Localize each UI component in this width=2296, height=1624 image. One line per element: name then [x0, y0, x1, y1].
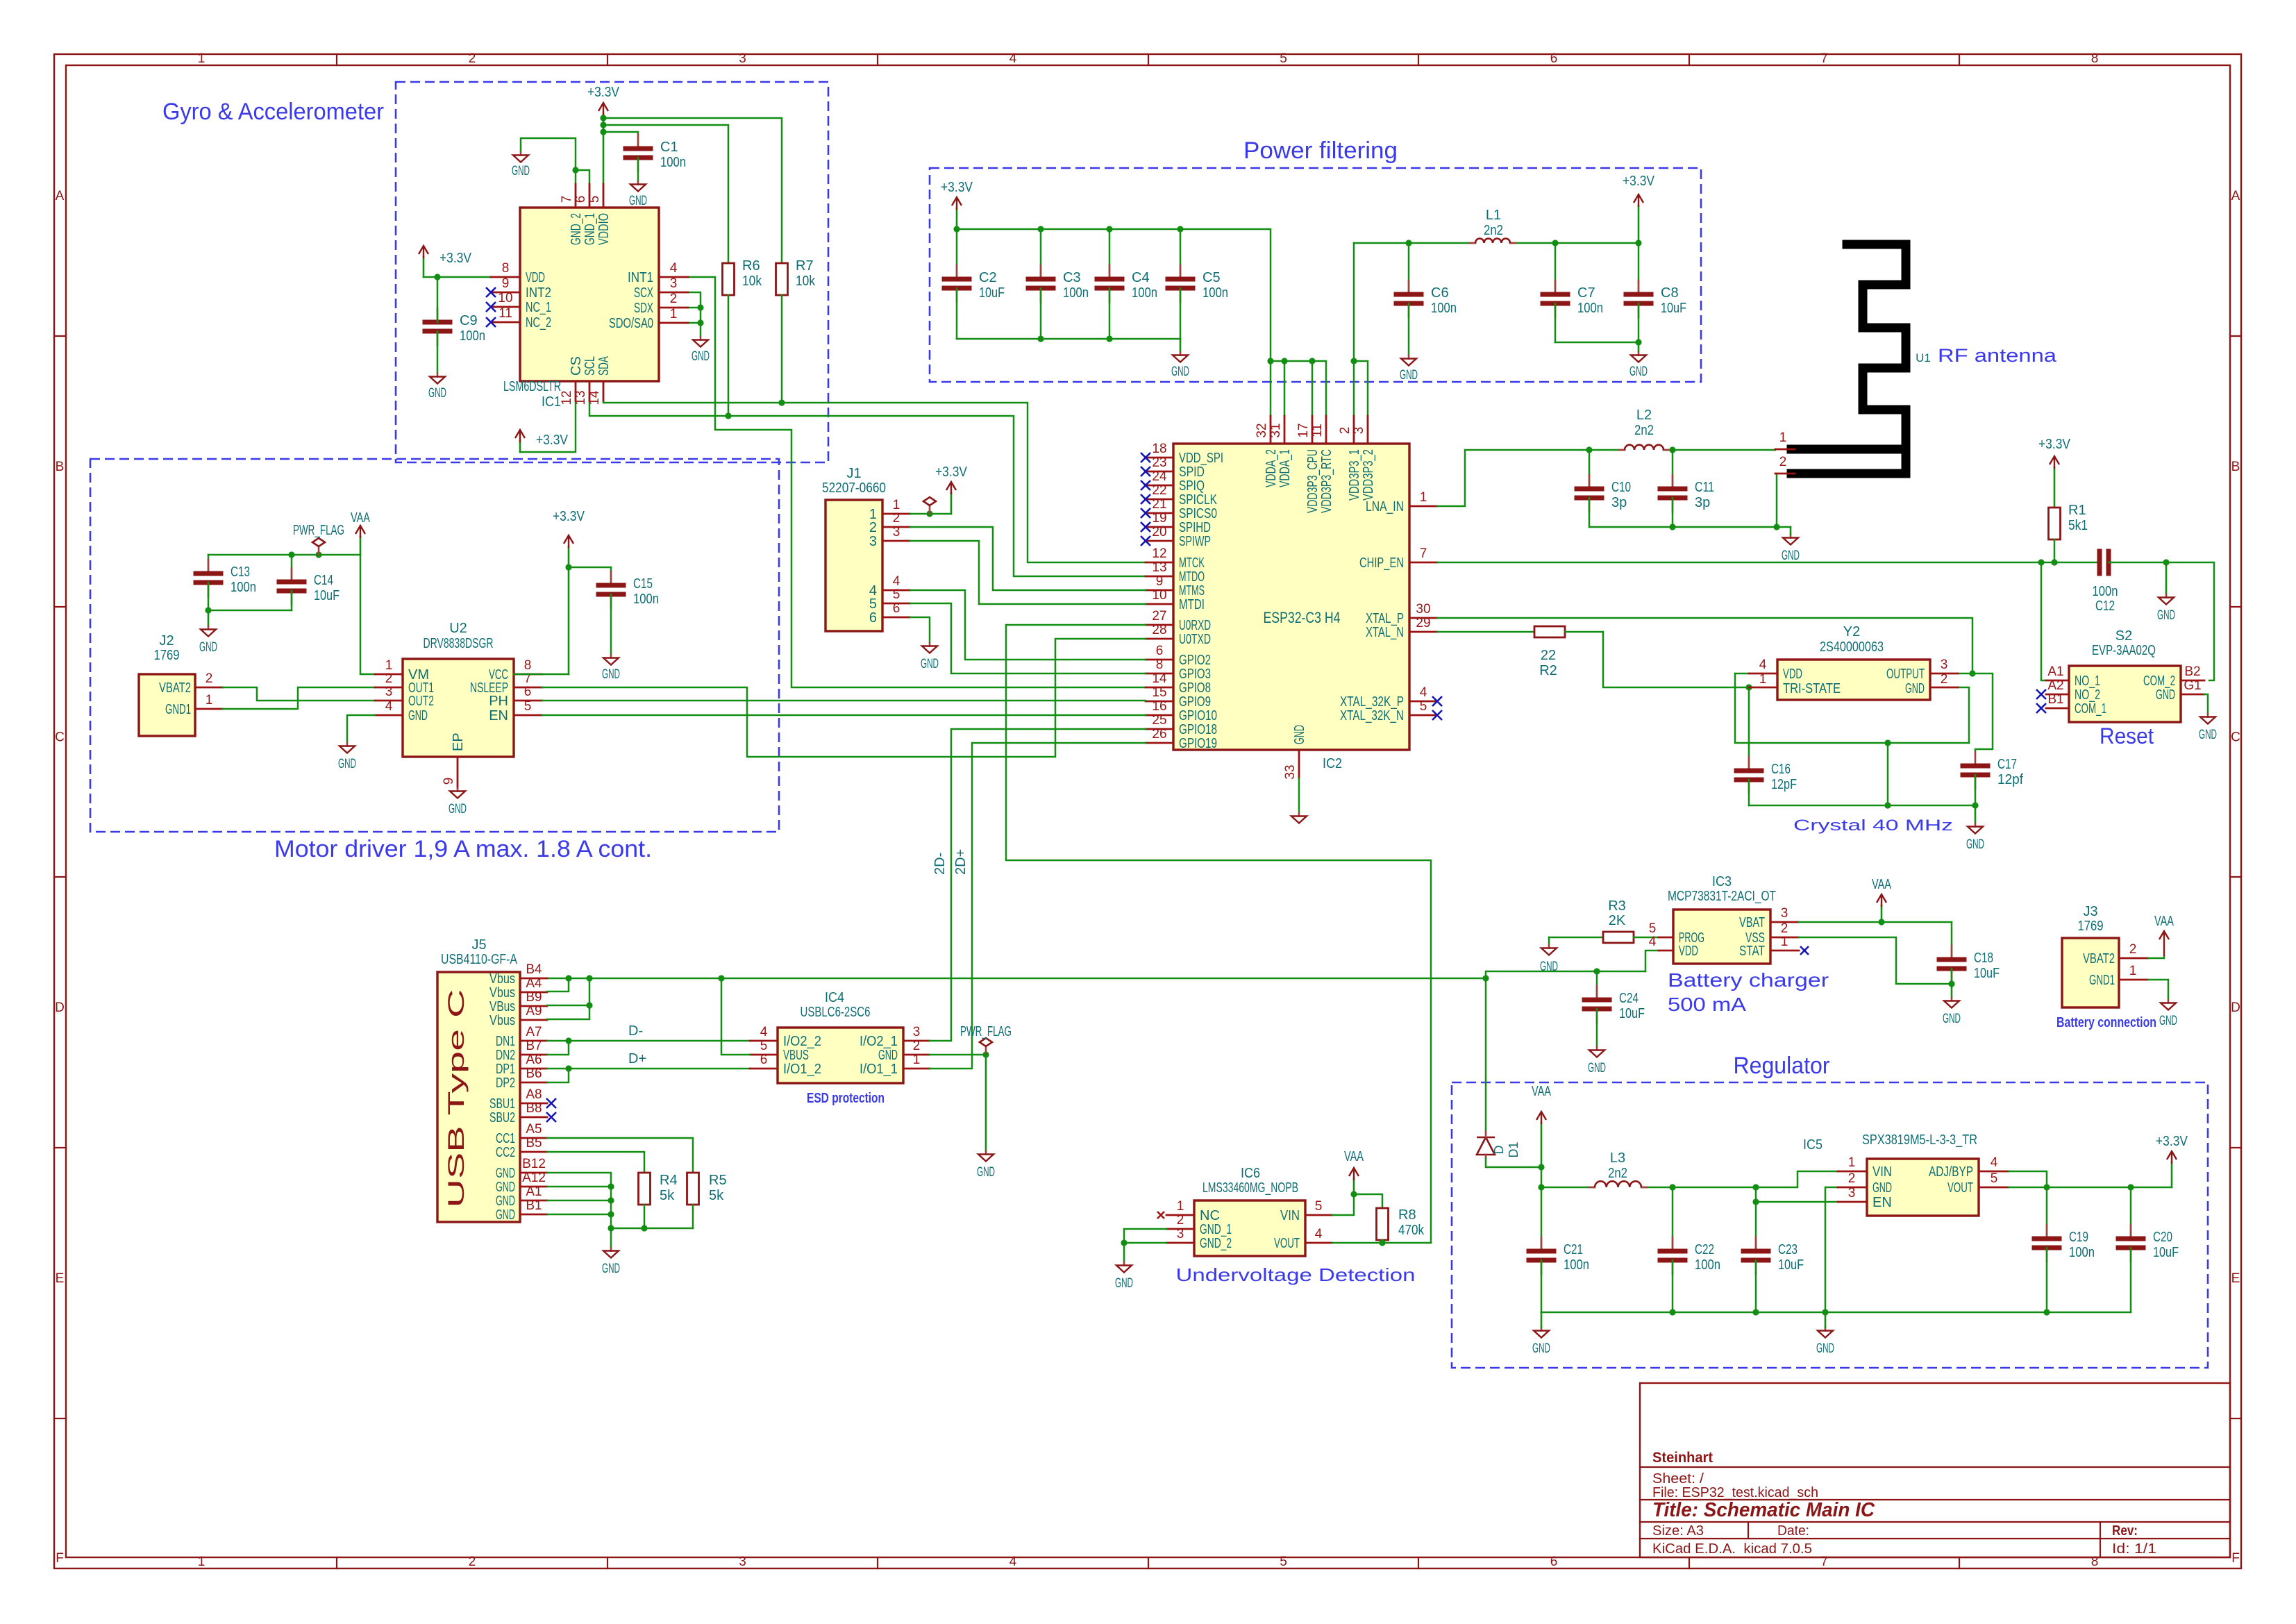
svg-text:1: 1 [1781, 935, 1788, 949]
svg-text:Battery charger: Battery charger [1668, 969, 1829, 991]
svg-text:10uF: 10uF [2153, 1245, 2179, 1260]
svg-text:J2: J2 [159, 633, 174, 648]
svg-text:VDD3P3_CPU: VDD3P3_CPU [1305, 449, 1321, 513]
svg-text:3: 3 [913, 1025, 921, 1039]
svg-text:U0TXD: U0TXD [1179, 632, 1211, 647]
svg-text:C2: C2 [979, 270, 997, 285]
svg-text:3p: 3p [1611, 495, 1627, 510]
svg-text:1: 1 [1779, 430, 1787, 445]
svg-text:14: 14 [587, 390, 602, 405]
svg-text:A2: A2 [2047, 678, 2063, 693]
svg-text:S2: S2 [2115, 628, 2132, 644]
svg-text:Steinhart: Steinhart [1652, 1450, 1713, 1466]
svg-text:GND: GND [1292, 725, 1307, 744]
svg-text:GND: GND [1629, 365, 1648, 379]
svg-text:C4: C4 [1132, 270, 1150, 285]
svg-text:C13: C13 [231, 564, 250, 580]
svg-text:Gyro & Accelerometer: Gyro & Accelerometer [162, 99, 384, 125]
svg-text:B6: B6 [526, 1066, 542, 1081]
svg-text:100n: 100n [1132, 285, 1157, 301]
svg-text:6: 6 [1550, 51, 1558, 66]
svg-text:17: 17 [1296, 423, 1311, 437]
svg-text:3: 3 [739, 1555, 746, 1569]
svg-text:STAT: STAT [1739, 944, 1765, 959]
svg-text:4: 4 [760, 1025, 768, 1039]
svg-text:100n: 100n [460, 328, 485, 344]
svg-text:GPIO19: GPIO19 [1179, 736, 1217, 751]
svg-text:16: 16 [1152, 699, 1166, 714]
svg-text:6: 6 [524, 685, 532, 699]
svg-text:LMS33460MG_NOPB: LMS33460MG_NOPB [1203, 1180, 1298, 1196]
svg-text:R3: R3 [1608, 898, 1626, 914]
svg-text:U1: U1 [1916, 351, 1931, 365]
svg-text:4: 4 [1315, 1227, 1323, 1241]
svg-text:10uF: 10uF [1661, 301, 1686, 316]
svg-text:I/O2_1: I/O2_1 [860, 1034, 898, 1049]
svg-text:GND: GND [1872, 1180, 1892, 1196]
svg-text:L3: L3 [1610, 1150, 1625, 1166]
svg-text:3: 3 [385, 685, 393, 699]
svg-text:1: 1 [198, 1555, 206, 1569]
svg-text:5: 5 [1280, 51, 1287, 66]
svg-text:GND: GND [921, 657, 939, 671]
svg-text:13: 13 [1152, 560, 1166, 575]
svg-text:2n2: 2n2 [1634, 423, 1654, 438]
svg-text:GND_1: GND_1 [583, 213, 598, 245]
svg-text:R1: R1 [2068, 503, 2086, 518]
svg-text:COM_2: COM_2 [2143, 673, 2175, 689]
svg-text:SBU1: SBU1 [489, 1096, 515, 1112]
svg-text:2: 2 [385, 671, 393, 686]
svg-text:1: 1 [1759, 672, 1767, 687]
svg-text:2n2: 2n2 [1608, 1166, 1627, 1181]
svg-text:VIN: VIN [1280, 1208, 1300, 1223]
svg-text:DRV8838DSGR: DRV8838DSGR [424, 636, 494, 651]
svg-text:GPIO8: GPIO8 [1179, 680, 1211, 696]
svg-text:GPIO18: GPIO18 [1179, 722, 1217, 737]
svg-text:XTAL_P: XTAL_P [1366, 611, 1404, 626]
svg-text:EP: EP [451, 733, 466, 751]
svg-text:SPID: SPID [1179, 464, 1205, 480]
svg-text:5: 5 [1315, 1199, 1323, 1214]
svg-text:B5: B5 [526, 1136, 542, 1150]
svg-text:IC4: IC4 [825, 990, 844, 1005]
svg-text:C18: C18 [1974, 951, 1993, 966]
svg-text:4: 4 [1991, 1155, 1998, 1170]
svg-text:VDDA_2: VDDA_2 [1264, 449, 1279, 487]
svg-text:DP2: DP2 [496, 1075, 515, 1091]
svg-text:Reset: Reset [2100, 723, 2154, 748]
svg-text:CC1: CC1 [496, 1131, 515, 1146]
svg-text:2: 2 [869, 520, 877, 535]
svg-text:A1: A1 [2047, 664, 2063, 679]
svg-text:100n: 100n [633, 592, 659, 607]
svg-text:10k: 10k [742, 274, 762, 289]
svg-text:GND: GND [496, 1194, 515, 1209]
svg-text:PH: PH [489, 694, 508, 709]
svg-text:2: 2 [1338, 427, 1352, 435]
svg-text:6: 6 [573, 196, 588, 203]
svg-text:VAA: VAA [1532, 1084, 1551, 1099]
svg-text:D: D [2231, 1001, 2240, 1015]
svg-text:INT1: INT1 [628, 270, 653, 285]
svg-text:VDD3P3_RTC: VDD3P3_RTC [1319, 449, 1334, 513]
svg-text:A: A [2231, 189, 2240, 203]
svg-text:1: 1 [670, 307, 678, 321]
svg-text:C14: C14 [314, 573, 333, 588]
svg-text:4: 4 [670, 261, 678, 276]
svg-text:C7: C7 [1577, 285, 1595, 301]
svg-text:100n: 100n [1695, 1257, 1720, 1273]
svg-text:D: D [55, 1001, 65, 1015]
svg-text:C: C [2231, 730, 2240, 745]
svg-text:Power filtering: Power filtering [1243, 137, 1398, 164]
svg-text:5: 5 [587, 196, 602, 203]
svg-text:3: 3 [1781, 906, 1788, 921]
svg-text:GND: GND [338, 757, 356, 771]
svg-text:5k1: 5k1 [2068, 518, 2088, 533]
svg-text:PWR_FLAG: PWR_FLAG [293, 523, 344, 538]
svg-text:L2: L2 [1636, 408, 1652, 423]
svg-text:Vbus: Vbus [489, 1013, 515, 1028]
svg-text:GND: GND [2159, 1014, 2177, 1028]
svg-text:C20: C20 [2153, 1230, 2172, 1245]
svg-text:GND: GND [692, 349, 710, 364]
svg-text:R5: R5 [709, 1173, 727, 1188]
svg-text:D+: D+ [628, 1051, 646, 1066]
svg-text:14: 14 [1152, 671, 1167, 686]
svg-text:24: 24 [1152, 469, 1167, 484]
svg-text:3: 3 [869, 534, 877, 549]
svg-text:TRI-STATE: TRI-STATE [1783, 681, 1841, 696]
svg-text:12pf: 12pf [1997, 772, 2023, 787]
svg-text:G1: G1 [2184, 678, 2201, 693]
svg-text:5: 5 [1649, 921, 1657, 936]
svg-text:VDD: VDD [1679, 944, 1698, 959]
svg-text:11: 11 [498, 306, 512, 321]
svg-text:GND: GND [878, 1048, 898, 1063]
svg-text:VAA: VAA [351, 510, 370, 526]
svg-text:13: 13 [573, 390, 588, 405]
svg-text:GND_2: GND_2 [569, 213, 584, 245]
svg-text:6: 6 [1156, 644, 1164, 658]
svg-text:GND: GND [629, 194, 647, 208]
svg-text:GND: GND [1782, 549, 1800, 563]
svg-text:Id: 1/1: Id: 1/1 [2112, 1541, 2156, 1557]
svg-text:B: B [2231, 460, 2240, 474]
svg-text:SPIHD: SPIHD [1179, 520, 1211, 535]
svg-text:5k: 5k [660, 1188, 675, 1203]
svg-text:J5: J5 [471, 937, 486, 953]
svg-text:SDA: SDA [596, 356, 612, 376]
svg-text:7: 7 [1420, 546, 1427, 561]
svg-text:Undervoltage Detection: Undervoltage Detection [1176, 1264, 1416, 1285]
svg-text:OUTPUT: OUTPUT [1886, 667, 1925, 682]
svg-text:2: 2 [469, 1555, 476, 1569]
svg-text:2: 2 [670, 292, 678, 306]
svg-text:1: 1 [206, 693, 213, 708]
svg-text:NC_2: NC_2 [526, 315, 551, 330]
svg-text:4: 4 [1009, 51, 1017, 66]
svg-text:GND: GND [1943, 1012, 1961, 1026]
svg-text:NC: NC [1200, 1208, 1220, 1223]
svg-text:B8: B8 [526, 1101, 542, 1116]
svg-text:VOUT: VOUT [1947, 1180, 1973, 1196]
svg-text:GND: GND [1532, 1341, 1550, 1356]
svg-text:2D+: 2D+ [953, 849, 969, 875]
svg-text:GND: GND [496, 1166, 515, 1181]
svg-text:12: 12 [560, 390, 574, 405]
svg-text:USB4110-GF-A: USB4110-GF-A [441, 952, 518, 967]
svg-text:C5: C5 [1203, 270, 1221, 285]
svg-text:GND: GND [1171, 365, 1189, 379]
svg-text:D: D [1492, 1146, 1506, 1155]
svg-text:F: F [56, 1551, 64, 1566]
svg-text:25: 25 [1152, 713, 1166, 728]
svg-text:Vbus: Vbus [489, 971, 515, 987]
svg-text:1: 1 [1420, 490, 1427, 505]
svg-text:SPIWP: SPIWP [1179, 534, 1211, 549]
svg-text:7: 7 [1820, 51, 1828, 66]
svg-text:GND: GND [602, 667, 620, 682]
svg-text:6: 6 [869, 610, 877, 626]
svg-text:DN1: DN1 [496, 1034, 515, 1049]
svg-text:C1: C1 [660, 140, 678, 155]
svg-text:GND: GND [449, 802, 467, 817]
svg-text:LSM6DSLTR: LSM6DSLTR [503, 379, 561, 394]
svg-text:SPICS0: SPICS0 [1179, 506, 1217, 521]
svg-text:10uF: 10uF [1619, 1006, 1645, 1021]
svg-text:2: 2 [1781, 921, 1788, 936]
svg-text:VDD: VDD [526, 270, 545, 285]
svg-text:MTCK: MTCK [1179, 555, 1205, 571]
svg-text:2: 2 [206, 671, 213, 686]
svg-text:C6: C6 [1431, 285, 1449, 301]
svg-text:EN: EN [1872, 1195, 1892, 1210]
svg-text:MCP73831T-2ACI_OT: MCP73831T-2ACI_OT [1668, 889, 1776, 904]
svg-text:1: 1 [1177, 1199, 1184, 1214]
svg-text:R2: R2 [1539, 663, 1557, 678]
svg-text:R8: R8 [1398, 1207, 1416, 1223]
svg-text:GND: GND [2156, 687, 2175, 703]
svg-text:SCX: SCX [634, 285, 653, 301]
svg-text:500 mA: 500 mA [1668, 994, 1746, 1015]
svg-text:1: 1 [385, 658, 393, 673]
svg-text:SCL: SCL [583, 356, 598, 376]
svg-text:A8: A8 [526, 1087, 542, 1102]
svg-text:IC1: IC1 [542, 394, 561, 410]
svg-text:4: 4 [1649, 935, 1657, 949]
svg-text:1769: 1769 [2078, 919, 2104, 934]
svg-text:1: 1 [913, 1053, 921, 1067]
svg-text:+3.3V: +3.3V [941, 180, 973, 195]
svg-text:VBAT: VBAT [1739, 915, 1765, 930]
svg-text:GND_1: GND_1 [1200, 1222, 1232, 1237]
svg-text:Sheet: /: Sheet: / [1652, 1471, 1704, 1487]
svg-text:2: 2 [1177, 1213, 1184, 1228]
svg-text:5k: 5k [709, 1188, 724, 1203]
svg-text:31: 31 [1268, 423, 1283, 437]
svg-text:VAA: VAA [2154, 914, 2174, 929]
svg-text:GND: GND [1588, 1061, 1606, 1075]
svg-text:F: F [2231, 1551, 2240, 1566]
svg-text:GND: GND [1540, 960, 1558, 974]
svg-text:GND: GND [2157, 608, 2175, 623]
svg-text:GND: GND [2199, 728, 2217, 742]
svg-text:SPICLK: SPICLK [1179, 492, 1217, 508]
svg-text:B4: B4 [526, 962, 542, 977]
svg-text:GND: GND [977, 1165, 995, 1180]
svg-text:Motor driver 1,9 A max. 1.8 A: Motor driver 1,9 A max. 1.8 A cont. [274, 836, 652, 862]
svg-text:A1: A1 [526, 1184, 542, 1199]
svg-text:B12: B12 [522, 1157, 546, 1171]
svg-text:Y2: Y2 [1843, 624, 1860, 639]
svg-text:J3: J3 [2083, 904, 2097, 919]
svg-text:32: 32 [1255, 423, 1269, 437]
svg-text:A12: A12 [522, 1171, 546, 1185]
svg-text:21: 21 [1152, 497, 1166, 512]
svg-text:3: 3 [1848, 1186, 1856, 1200]
svg-text:KiCad E.D.A. kicad 7.0.5: KiCad E.D.A. kicad 7.0.5 [1652, 1541, 1812, 1557]
svg-text:NO_1: NO_1 [2075, 673, 2100, 689]
svg-text:B9: B9 [526, 990, 542, 1005]
svg-text:5: 5 [869, 596, 877, 612]
svg-text:10uF: 10uF [1778, 1257, 1804, 1273]
svg-text:SDO/SA0: SDO/SA0 [609, 316, 653, 331]
svg-text:10: 10 [498, 291, 512, 305]
svg-text:5: 5 [1420, 699, 1427, 714]
svg-text:5: 5 [1991, 1171, 1998, 1186]
svg-text:3: 3 [1941, 658, 1948, 672]
svg-text:8: 8 [2091, 51, 2099, 66]
svg-text:RF antenna: RF antenna [1938, 345, 2057, 366]
svg-text:C23: C23 [1778, 1242, 1798, 1257]
svg-text:GPIO3: GPIO3 [1179, 667, 1211, 682]
svg-text:2D-: 2D- [932, 853, 948, 875]
svg-text:R6: R6 [742, 258, 760, 274]
svg-text:B7: B7 [526, 1039, 542, 1053]
svg-text:VBus: VBus [489, 999, 515, 1014]
svg-text:+3.3V: +3.3V [536, 433, 569, 448]
svg-text:470k: 470k [1398, 1223, 1425, 1238]
svg-text:C: C [55, 730, 65, 745]
svg-text:C24: C24 [1619, 991, 1639, 1006]
svg-text:+3.3V: +3.3V [2038, 437, 2071, 452]
svg-text:GND_2: GND_2 [1200, 1236, 1232, 1251]
svg-text:GND: GND [428, 386, 446, 401]
svg-text:2n2: 2n2 [1484, 223, 1503, 238]
svg-text:NO_2: NO_2 [2075, 687, 2100, 703]
svg-text:29: 29 [1416, 616, 1430, 630]
svg-text:26: 26 [1152, 727, 1166, 742]
svg-text:VOUT: VOUT [1274, 1236, 1300, 1251]
svg-text:DP1: DP1 [496, 1062, 515, 1077]
svg-text:PWR_FLAG: PWR_FLAG [960, 1024, 1012, 1039]
svg-text:GND: GND [199, 640, 217, 655]
svg-text:C8: C8 [1661, 285, 1679, 301]
svg-text:COM_1: COM_1 [2075, 701, 2106, 717]
svg-text:GND: GND [496, 1207, 515, 1223]
svg-text:27: 27 [1152, 609, 1166, 623]
svg-text:File: ESP32_test.kicad_sch: File: ESP32_test.kicad_sch [1652, 1485, 1818, 1500]
svg-text:GND: GND [408, 708, 428, 723]
svg-text:MTDO: MTDO [1179, 569, 1205, 585]
svg-text:VAA: VAA [1872, 877, 1891, 892]
svg-text:B2: B2 [2184, 664, 2200, 679]
svg-text:3p: 3p [1695, 495, 1710, 510]
svg-text:A4: A4 [526, 976, 542, 991]
svg-text:5: 5 [1280, 1555, 1287, 1569]
svg-text:5: 5 [760, 1039, 768, 1053]
svg-text:5: 5 [893, 587, 900, 602]
svg-text:2: 2 [469, 51, 476, 66]
svg-text:2: 2 [1848, 1171, 1856, 1186]
svg-text:SPX3819M5-L-3-3_TR: SPX3819M5-L-3-3_TR [1862, 1132, 1977, 1148]
svg-text:8: 8 [502, 261, 510, 276]
svg-text:+3.3V: +3.3V [439, 251, 472, 266]
svg-text:GND: GND [1905, 681, 1925, 696]
svg-text:D1: D1 [1507, 1141, 1520, 1157]
svg-text:B1: B1 [526, 1198, 542, 1213]
svg-text:+3.3V: +3.3V [935, 464, 968, 480]
svg-text:VDDA_1: VDDA_1 [1277, 449, 1293, 487]
svg-text:2K: 2K [1609, 913, 1626, 928]
svg-text:VDD: VDD [1783, 667, 1802, 682]
svg-text:SDX: SDX [634, 301, 653, 316]
svg-text:NC_1: NC_1 [526, 300, 551, 315]
svg-text:C9: C9 [460, 313, 478, 328]
svg-text:9: 9 [1156, 574, 1164, 589]
svg-text:I/O1_1: I/O1_1 [860, 1062, 898, 1077]
svg-text:L1: L1 [1486, 208, 1501, 223]
svg-text:30: 30 [1416, 602, 1430, 617]
svg-text:GPIO10: GPIO10 [1179, 708, 1217, 723]
svg-text:3: 3 [739, 51, 746, 66]
svg-text:EN: EN [489, 708, 508, 723]
svg-text:GPIO9: GPIO9 [1179, 694, 1211, 710]
svg-text:VBAT2: VBAT2 [2083, 951, 2115, 966]
svg-text:4: 4 [893, 574, 900, 589]
svg-text:XTAL_32K_N: XTAL_32K_N [1340, 708, 1404, 723]
svg-text:ESP32-C3 H4: ESP32-C3 H4 [1264, 609, 1341, 626]
svg-text:10: 10 [1152, 588, 1166, 603]
svg-text:+3.3V: +3.3V [1623, 174, 1655, 189]
svg-text:10uF: 10uF [314, 588, 340, 603]
svg-text:GPIO2: GPIO2 [1179, 653, 1211, 668]
svg-text:100n: 100n [1577, 301, 1603, 316]
svg-text:GND: GND [602, 1262, 620, 1276]
svg-text:C15: C15 [633, 576, 653, 592]
svg-text:Rev:: Rev: [2112, 1523, 2138, 1539]
svg-text:6: 6 [760, 1053, 768, 1067]
svg-text:GND1: GND1 [2089, 973, 2115, 988]
svg-text:+3.3V: +3.3V [2156, 1134, 2188, 1149]
svg-text:23: 23 [1152, 455, 1166, 470]
svg-text:8: 8 [1156, 658, 1164, 672]
svg-text:+3.3V: +3.3V [587, 85, 620, 100]
svg-text:DN2: DN2 [496, 1048, 515, 1063]
svg-text:3: 3 [1352, 427, 1366, 435]
svg-text:IC6: IC6 [1241, 1166, 1260, 1181]
svg-text:VBAT2: VBAT2 [159, 680, 191, 696]
svg-text:3: 3 [893, 525, 900, 539]
svg-text:INT2: INT2 [526, 285, 551, 301]
svg-text:11: 11 [1310, 424, 1325, 437]
svg-text:2: 2 [2129, 942, 2137, 957]
svg-text:18: 18 [1152, 442, 1166, 456]
svg-text:C17: C17 [1997, 757, 2017, 772]
svg-text:R7: R7 [796, 258, 814, 274]
